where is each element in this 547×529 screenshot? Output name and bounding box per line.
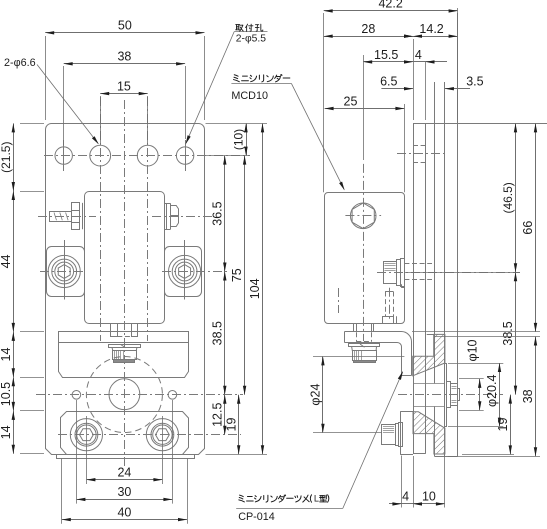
claw screw nut: [383, 317, 394, 324]
dim 104: [262, 123, 264, 454]
svg-text:50: 50: [118, 19, 132, 33]
P1 top edge extension: [427, 334, 435, 336]
dim phi20.4: [499, 363, 501, 427]
bottom protruding strip under body: [57, 455, 195, 459]
svg-text:3.5: 3.5: [466, 74, 483, 88]
dim 38: [535, 337, 537, 457]
label toritsuke-ana kanji: [236, 25, 244, 32]
dim (46.5): [515, 123, 517, 272]
left hose barb fitting: [72, 203, 80, 230]
svg-text:14: 14: [0, 425, 13, 439]
svg-text:10: 10: [422, 490, 436, 504]
svg-text:36.5: 36.5: [210, 201, 224, 225]
claw leg bottom cap: [402, 375, 412, 377]
hole c4 centerline: [185, 140, 187, 171]
svg-text:38: 38: [521, 389, 535, 403]
svg-text:CP-014: CP-014: [238, 511, 275, 523]
arm plate (front) with chamfered bottom corners: [59, 332, 189, 378]
ext 456 right: [448, 456, 540, 458]
hatched clamp block section P2 (lower): [413, 412, 445, 454]
front view: bracket body plate 50x104: [46, 124, 205, 455]
side hole left: [72, 391, 81, 400]
label toritsuke-ana 2-phi5.5 leader: [234, 31, 267, 33]
svg-text:12.5: 12.5: [210, 403, 224, 427]
svg-text:4: 4: [402, 490, 409, 504]
clamp screw tip: [458, 389, 460, 401]
dim 36.5: [224, 156, 226, 272]
hole c2 centerline (extends down): [100, 97, 102, 341]
fitting centerline left: [38, 216, 96, 218]
svg-text:φ10: φ10: [465, 339, 479, 361]
side top dim ext lines: [323, 13, 325, 192]
label mini cylinder MCD10: [231, 83, 291, 85]
svg-text:2-φ6.6: 2-φ6.6: [4, 57, 36, 69]
svg-text:75: 75: [230, 268, 244, 282]
svg-text:25: 25: [344, 94, 358, 108]
svg-text:L: L: [314, 494, 319, 504]
rod clamp bottom cap (dark band): [114, 360, 135, 363]
svg-text:40: 40: [117, 505, 131, 519]
svg-text:38.5: 38.5: [210, 321, 224, 345]
dim 40: [62, 519, 187, 521]
dim 38: [64, 63, 185, 65]
right margin dims of side view: [459, 378, 484, 380]
mounting hole left (phi5.5): [55, 147, 72, 164]
svg-text:6.5: 6.5: [380, 74, 397, 88]
svg-text:(46.5): (46.5): [501, 182, 515, 213]
svg-text:28: 28: [361, 22, 375, 36]
label mini-cylinder kana: [234, 75, 240, 82]
dim phi10: [479, 379, 481, 410]
svg-text:φ20.4: φ20.4: [485, 375, 499, 407]
svg-text:44: 44: [0, 254, 13, 268]
svg-text:10.5: 10.5: [0, 382, 13, 406]
screw shaft lines: [413, 383, 444, 385]
svg-text:24: 24: [117, 466, 131, 480]
ear screw axis right seg: [162, 271, 227, 273]
svg-text:4: 4: [415, 48, 422, 62]
dim 42.2: [324, 10, 458, 12]
hole phi6.6 left: [90, 145, 111, 166]
rod clamp knurl: [113, 351, 137, 360]
svg-text:66: 66: [521, 221, 535, 235]
center hole phi10: [109, 379, 140, 410]
dim 66: [535, 123, 537, 332]
top line of side assembly: [413, 123, 547, 125]
ext arm top right: [412, 331, 540, 333]
ear screw (side view): [384, 262, 397, 284]
hidden claw screw below ear screw: [385, 292, 387, 317]
claw sheet line across arm: [59, 342, 189, 344]
ear socket screw right: [169, 255, 201, 287]
svg-text:19: 19: [496, 418, 510, 432]
ear screw axis + ext: [377, 272, 520, 274]
dim 6.5 and 3.5: [381, 88, 413, 90]
clamp plate front (40 wide) chamfered corners: [61, 412, 189, 455]
svg-text:14.2: 14.2: [419, 22, 443, 36]
svg-text:104: 104: [248, 278, 262, 299]
bottom dims 4 and 10: [401, 456, 403, 508]
dim 38.5 front: [224, 272, 226, 395]
svg-text:19: 19: [224, 418, 238, 432]
ear socket screw left: [48, 255, 80, 287]
big dashed circle phi24 clamp boss: [86, 357, 162, 433]
hidden shaft bottom: [404, 279, 432, 281]
label mini-cylinder-claw kana: [239, 495, 245, 502]
dim 10.5: [13, 377, 15, 411]
clamp screw axis: [398, 394, 503, 396]
rod block under plate: [353, 323, 355, 332]
dim (10): [246, 123, 248, 155]
ext rear plate top: [434, 336, 540, 338]
phi24 dim: [313, 356, 404, 358]
clamp screw flange: [447, 382, 451, 408]
bottom clamp screw left: [70, 419, 102, 451]
dim 25: [325, 108, 405, 110]
mounting hole right (phi5.5): [176, 147, 193, 164]
piston rod guides below cylinder: [111, 324, 118, 337]
svg-text:2-φ5.5: 2-φ5.5: [236, 33, 266, 44]
svg-text:(10): (10): [232, 129, 246, 150]
dim phi24: [322, 356, 324, 432]
rod clamp flange: [109, 345, 141, 348]
svg-text:MCD10: MCD10: [231, 90, 268, 102]
svg-text:30: 30: [117, 485, 131, 499]
dim 15: [100, 93, 148, 95]
phi row centerline: [36, 394, 243, 396]
dim 38.5 side: [515, 272, 517, 394]
right ear boss: [165, 247, 202, 297]
mounting bracket plate B-C (4t): [413, 124, 415, 454]
rod clamp neck: [112, 348, 137, 351]
hatched clamp block section P1 (upper): [413, 334, 445, 375]
claw leg left end: [344, 332, 346, 343]
svg-text:38.5: 38.5: [501, 321, 515, 345]
mounting holes row centerline: [44, 155, 250, 157]
hex hole h-centerline: [345, 215, 381, 217]
bottom screw (side view): [382, 425, 396, 445]
svg-text:φ24: φ24: [309, 384, 323, 406]
side hole right: [168, 391, 177, 400]
dim (21.5): [13, 123, 15, 191]
left ear boss: [47, 247, 85, 297]
step line: [396, 316, 398, 324]
side: cylinder mounting plate: [325, 193, 405, 324]
bottom screws axis: [58, 434, 241, 436]
hole c1 centerline: [63, 140, 65, 171]
clamp plate (side): [400, 412, 402, 455]
hex hole: [350, 203, 376, 229]
clamp screw head with knurl: [451, 384, 458, 406]
ear screw axis left seg: [40, 271, 86, 273]
clamp screw phi20.4 washer: [445, 364, 447, 427]
label claw CP-014: [236, 508, 343, 510]
hidden second claw screw axis: [338, 288, 340, 313]
bottom clamp screw right: [146, 419, 178, 451]
dim 44: [13, 191, 15, 332]
dim 15.5 and 4: [363, 61, 413, 63]
rod clamp (side): flange/neck/knurl: [349, 344, 380, 347]
svg-text:15.5: 15.5: [374, 48, 398, 62]
dim 14 arm: [13, 332, 15, 377]
dim 28/14.2: [324, 36, 413, 38]
left margin dim chain: [20, 123, 44, 125]
hidden mounting hole in plate: [413, 145, 426, 147]
svg-text:38: 38: [117, 50, 131, 64]
flange tick mark: [121, 345, 126, 348]
side cylinder centerline: [363, 164, 365, 341]
claw (tsume) horizontal leg + fillet: [345, 332, 412, 376]
dim 30: [76, 499, 172, 501]
right plug fitting: [164, 203, 166, 229]
dim 19 front: [238, 395, 240, 455]
svg-text:14: 14: [0, 348, 13, 362]
hole c3 centerline (extends down): [147, 97, 149, 341]
hidden shaft top: [404, 263, 432, 265]
cylinder body MCD10 (front): [85, 192, 165, 324]
svg-text:42.2: 42.2: [378, 0, 402, 11]
dim 50: [45, 32, 204, 34]
right side dims of front view: [206, 123, 268, 125]
main vertical centerline: [124, 100, 126, 466]
ext screw row right: [404, 272, 520, 274]
svg-text:(21.5): (21.5): [0, 142, 13, 173]
dim 12.5: [224, 395, 226, 435]
dim 24: [86, 479, 162, 481]
rear plates D-E and G: [434, 82, 436, 383]
dim 14 clamp: [13, 411, 15, 454]
fitting centerline right: [152, 216, 213, 218]
hole phi6.6 right: [137, 145, 158, 166]
ext lines top dims front: [45, 36, 47, 120]
hidden rod end below block: [356, 332, 358, 342]
dim 19 side: [510, 395, 512, 455]
svg-text:15: 15: [117, 79, 131, 93]
dim 75: [244, 156, 246, 395]
bottom dims 24/30/40: [86, 416, 88, 484]
